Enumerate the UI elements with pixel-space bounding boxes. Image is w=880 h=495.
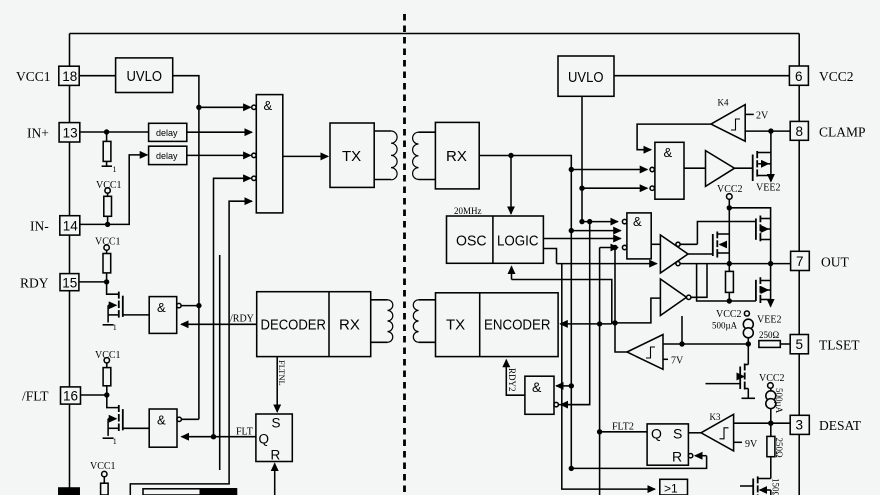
- wire bus B4: [219, 255, 221, 470]
- svg-text:TX: TX: [342, 148, 361, 165]
- wire G5 output to bus: [181, 305, 199, 307]
- svg-text:R: R: [271, 448, 281, 463]
- buffer B1 (clamp driver): [706, 151, 735, 187]
- wire top rail: [70, 33, 800, 35]
- wire bus 7V column: [615, 248, 627, 353]
- wire K3 output to FF2 S: [688, 432, 701, 434]
- svg-text:15: 15: [62, 275, 77, 290]
- transformer T2 secondary coil: [413, 300, 418, 342]
- wire UVLO2 to pin6: [614, 75, 789, 77]
- AND gate G4 (rdy2) box: [525, 376, 554, 414]
- svg-text:IN-: IN-: [30, 219, 49, 234]
- wire G3 in1: [582, 221, 618, 223]
- wire pin15 to node: [79, 281, 107, 283]
- svg-text:2V: 2V: [756, 111, 769, 122]
- node encoder line: [597, 321, 602, 326]
- wire VCC2 rail: [728, 199, 730, 263]
- pin 16 box: [61, 387, 81, 404]
- VCC1 terminal (IN- pullup): [105, 188, 110, 193]
- wire bus B-E down: [559, 222, 590, 405]
- svg-text:FLTNL: FLTNL: [277, 360, 287, 386]
- transformer T2 primary coil: [388, 300, 393, 342]
- current source I1: [743, 319, 753, 329]
- wire RX output: [479, 156, 571, 469]
- svg-text:500µA: 500µA: [774, 388, 784, 414]
- VCC2 terminal (TLSET source): [744, 311, 749, 316]
- wire buffer to clamp fet gate: [735, 167, 753, 169]
- K3 comparator: [701, 414, 734, 451]
- node IN+: [104, 129, 109, 134]
- wire cmp input up: [681, 316, 683, 344]
- node gate rail: [727, 298, 732, 303]
- svg-text:VCC2: VCC2: [717, 184, 743, 195]
- TX/ENCODER divider: [479, 293, 481, 357]
- wire UVLO2 output bus: [581, 96, 583, 221]
- svg-text:Q: Q: [651, 426, 662, 442]
- wire M6 gate to G6: [123, 427, 149, 429]
- svg-text:DECODER: DECODER: [261, 317, 327, 334]
- svg-text:9V: 9V: [745, 439, 758, 450]
- node cmp input: [679, 341, 684, 346]
- AND gate G3 (output logic) box: [627, 213, 651, 259]
- transistor M5 (RDY): [107, 282, 119, 294]
- TX ENCODER box: [436, 293, 559, 357]
- wire LOGIC out1 to gate in3: [543, 238, 620, 240]
- svg-text:7: 7: [796, 254, 804, 269]
- svg-text:FLT2: FLT2: [612, 422, 634, 433]
- resistor R-IN-: [107, 193, 109, 196]
- wire left VCC1 bus: [69, 34, 71, 495]
- transistor M3 (small pmos): [712, 234, 714, 256]
- wire DECODER /RDY to NAND: [181, 323, 257, 325]
- VCC2 terminal (DESAT source): [768, 383, 774, 389]
- svg-text:1: 1: [113, 323, 117, 332]
- wire IN- to delay2: [80, 155, 147, 225]
- svg-text:Q: Q: [259, 432, 270, 447]
- svg-text:18: 18: [62, 69, 77, 84]
- svg-text:RX: RX: [446, 148, 467, 165]
- AND gate G1 box: [256, 95, 283, 213]
- wire comparator plus input: [663, 343, 748, 345]
- UVLO U1 box: [116, 58, 173, 93]
- svg-text:250Ω: 250Ω: [774, 438, 784, 459]
- wire DECODER FLTNL down: [276, 357, 278, 412]
- pin 13 box: [59, 123, 80, 142]
- svg-text:&: &: [157, 300, 166, 315]
- svg-text:TX: TX: [446, 317, 465, 334]
- svg-text:7V: 7V: [671, 356, 684, 367]
- wire G2 output to buffer: [684, 167, 706, 169]
- svg-text:ENCODER: ENCODER: [484, 317, 551, 334]
- transistor M7 (TLSET): [747, 344, 749, 365]
- svg-text:K4: K4: [718, 98, 729, 108]
- wire FF2 R feedback: [571, 456, 706, 469]
- wire gate rail M2: [697, 222, 756, 245]
- svg-text:&: &: [157, 413, 166, 428]
- OSC/LOGIC divider: [492, 216, 494, 263]
- A2 output bubble: [687, 295, 691, 299]
- wire K4 input from CLAMP: [745, 130, 771, 132]
- node TLSET: [746, 341, 751, 346]
- VCC1 terminal (FLT pullup): [104, 358, 109, 363]
- node FLT/bus: [211, 434, 216, 439]
- pin 17 box (cut at bottom edge): [59, 488, 79, 495]
- node OUT a: [727, 261, 732, 266]
- transistor M6 (FLT): [107, 395, 118, 408]
- svg-text:R: R: [672, 449, 682, 465]
- wire UVLO2 to G2 in3: [582, 187, 647, 189]
- pin 7 box: [791, 251, 810, 270]
- wire 9V stub: [734, 441, 742, 443]
- wire LOGIC out2 to driver: [557, 263, 657, 265]
- A1 lower output bubble: [676, 262, 680, 266]
- AND input-1 bubble: [252, 105, 256, 109]
- transistor M4 (pull-down): [755, 280, 757, 301]
- svg-text:RDY2: RDY2: [507, 368, 517, 392]
- svg-text:VEE2: VEE2: [757, 315, 781, 326]
- resistor R-TLSET 250: [759, 341, 780, 348]
- svg-text:delay: delay: [156, 128, 178, 138]
- wire RX to LOGIC top: [510, 156, 512, 214]
- pin 15 box: [60, 274, 79, 291]
- svg-text:&: &: [633, 214, 642, 229]
- delay block D2: [149, 146, 187, 164]
- svg-text:3: 3: [796, 418, 804, 433]
- wire 2V stub: [745, 113, 754, 115]
- svg-text:13: 13: [63, 126, 78, 141]
- wire G3 output to A1: [651, 243, 660, 245]
- node bus590 start: [587, 219, 592, 224]
- svg-text:1: 1: [113, 165, 117, 174]
- node on RX bus: [569, 167, 574, 172]
- wire delay2 to AND in3: [187, 154, 251, 156]
- G6 output bubble: [177, 417, 181, 421]
- bottom cut box: [143, 489, 237, 495]
- transistor M1 (clamp): [752, 155, 754, 182]
- svg-text:&: &: [264, 98, 273, 113]
- svg-text:K3: K3: [710, 412, 721, 422]
- wire K4 output: [637, 124, 711, 150]
- svg-text:VCC2: VCC2: [819, 69, 854, 84]
- transformer T2 left stubs: [371, 299, 388, 301]
- svg-text:20MHz: 20MHz: [454, 206, 482, 216]
- driver triangle A1: [660, 235, 688, 273]
- svg-text:VCC2: VCC2: [759, 373, 785, 384]
- transformer T2 right stubs: [419, 299, 436, 301]
- pin 14 box: [60, 216, 80, 235]
- svg-text:/RDY: /RDY: [230, 314, 254, 325]
- svg-text:500µA: 500µA: [712, 321, 738, 331]
- pin 8 box: [790, 121, 808, 140]
- svg-text:VCC1: VCC1: [90, 461, 116, 472]
- NAND gate G5 (RDY) box: [149, 297, 177, 334]
- svg-text:DESAT: DESAT: [819, 418, 862, 433]
- svg-text:VCC2: VCC2: [716, 309, 742, 320]
- pin 18 box: [59, 66, 79, 85]
- wire A2 output: [691, 264, 707, 298]
- OR gate G7 box: [660, 479, 688, 495]
- wire FF1 Q output FLT: [182, 436, 256, 438]
- svg-text:/FLT: /FLT: [22, 389, 49, 404]
- svg-text:RX: RX: [339, 317, 360, 334]
- wire G6 output to bus: [181, 418, 199, 420]
- resistor R-FLT: [106, 363, 108, 368]
- G5 output bubble: [177, 303, 181, 307]
- NAND gate G6 (FLT) box: [149, 409, 177, 447]
- SR flip-flop FF2 box: [647, 424, 688, 465]
- transformer T1 secondary coil: [413, 132, 419, 179]
- svg-text:IN+: IN+: [27, 126, 49, 141]
- svg-text:150Ω: 150Ω: [771, 478, 781, 495]
- svg-text:6: 6: [795, 69, 803, 84]
- VCC1 terminal (RDY pullup): [104, 245, 109, 250]
- wire G4 output RDY2 up: [506, 360, 525, 395]
- svg-text:VCC1: VCC1: [95, 237, 121, 248]
- node UVLO/AND-in1: [196, 105, 201, 110]
- wire pin18 to UVLO: [79, 75, 115, 77]
- transistor M8 (DESAT): [752, 479, 754, 495]
- TX block (top channel): [330, 123, 374, 187]
- svg-text:CLAMP: CLAMP: [819, 125, 866, 140]
- AND input-4 bubble: [252, 176, 256, 180]
- resistor R-RDY: [106, 250, 108, 253]
- wire bus B3 to AND in5: [130, 201, 252, 495]
- node FLT pin: [104, 392, 109, 397]
- transformer T1 left stubs: [374, 130, 391, 132]
- ground 1 (IN+ pulldown): [106, 161, 108, 166]
- resistor R-out: [726, 271, 734, 292]
- wire FF1 R input: [274, 464, 276, 495]
- node OUT b: [768, 261, 773, 266]
- svg-text:1: 1: [113, 437, 117, 446]
- resistor R-IN+: [106, 132, 108, 141]
- wire bus B-A (to OR gate): [562, 264, 655, 490]
- wire M4 source to VEE2: [770, 300, 772, 307]
- K4 comparator: [711, 105, 745, 142]
- svg-text:14: 14: [63, 219, 79, 234]
- OSC LOGIC box: [447, 216, 544, 263]
- resistor R-bot: [103, 477, 105, 483]
- wire to A2 input: [615, 298, 660, 323]
- wire G4 in1 from RX bus: [556, 385, 571, 387]
- 7V comparator K2: [627, 335, 663, 370]
- wire pin16 to node: [81, 394, 107, 396]
- svg-text:VCC1: VCC1: [16, 69, 51, 84]
- driver triangle A2: [660, 279, 686, 316]
- wire bus FLT2 column: [599, 248, 601, 495]
- wire ENCODER feedback to LOGIC: [512, 280, 612, 324]
- wire bus RX to G2 in2: [571, 169, 647, 171]
- wire A1 tip output to M3 gate: [688, 253, 713, 255]
- svg-text:delay: delay: [156, 151, 178, 161]
- svg-text:FLT: FLT: [236, 427, 253, 438]
- wire M7 gate stub: [706, 383, 741, 385]
- wire OUT rail: [680, 263, 791, 265]
- svg-text:LOGIC: LOGIC: [497, 233, 539, 250]
- svg-text:&: &: [664, 145, 673, 160]
- node bus615/tri2: [612, 320, 617, 325]
- transformer T1 right stubs: [419, 131, 436, 133]
- node CLAMP: [768, 128, 773, 133]
- svg-text:UVLO: UVLO: [568, 69, 604, 86]
- node UVLO2/in3: [579, 186, 584, 191]
- AND input-3 bubble: [252, 153, 256, 157]
- AND gate G2 (clamp) box: [655, 142, 684, 199]
- svg-text:16: 16: [63, 389, 78, 404]
- wire AND output to TX: [283, 155, 328, 157]
- wire IN+ to delay1: [80, 131, 149, 133]
- svg-text:OSC: OSC: [456, 233, 487, 250]
- svg-text:S: S: [272, 416, 281, 431]
- wire UVLO output to bus: [173, 76, 199, 420]
- svg-text:250Ω: 250Ω: [759, 330, 780, 340]
- RX block (top channel): [435, 122, 479, 188]
- wire bus B2 to AND in4: [214, 178, 251, 436]
- DECODER RX box: [257, 292, 371, 357]
- wire to M2 drain: [729, 208, 770, 264]
- SR flip-flop FF1 box: [256, 414, 292, 462]
- svg-text:RDY: RDY: [20, 276, 49, 291]
- resistor R-DESAT 250: [770, 423, 772, 436]
- svg-text:>1: >1: [664, 482, 678, 495]
- svg-text:S: S: [673, 426, 682, 442]
- wire delay1 to AND in2: [187, 131, 252, 133]
- transistor M2 (pull-up): [755, 219, 757, 240]
- wire 7V stub: [663, 358, 668, 360]
- wire DESAT node to pin3: [771, 422, 790, 424]
- node RX/OSC: [508, 153, 513, 158]
- A1 upper output bubble: [676, 242, 680, 246]
- delay block D1: [149, 123, 187, 141]
- current source I2: [766, 391, 776, 401]
- svg-text:VCC1: VCC1: [96, 180, 122, 191]
- wire LOGIC bottom step output: [543, 249, 556, 264]
- svg-text:5: 5: [796, 337, 804, 352]
- node in4/bus615: [612, 245, 617, 250]
- DECODER/RX divider: [328, 292, 330, 357]
- node R feedback: [569, 466, 574, 471]
- VCC2 terminal (output stage): [727, 194, 733, 200]
- wire AND in1: [199, 106, 251, 108]
- wire CLAMP node to pin8: [771, 130, 790, 132]
- isolation barrier (dashed): [403, 14, 406, 495]
- wire FLT2 into FF2: [600, 431, 648, 433]
- wire G3 in4: [600, 247, 618, 249]
- svg-text:&: &: [532, 379, 542, 395]
- node IN-: [105, 222, 110, 227]
- svg-text:OUT: OUT: [821, 255, 849, 270]
- svg-text:VCC1: VCC1: [95, 350, 121, 361]
- wire A1 upper output: [680, 243, 697, 245]
- pin 5 box: [790, 335, 808, 354]
- pin 3 box: [790, 415, 809, 434]
- svg-text:8: 8: [796, 124, 804, 139]
- node G5 out: [196, 303, 201, 308]
- pin 6 box: [789, 66, 808, 85]
- VCC1 terminal (bottom): [102, 471, 107, 476]
- wire G4 in2: [561, 404, 590, 406]
- svg-text:UVLO: UVLO: [127, 68, 163, 85]
- wire DESAT node to K3: [734, 422, 771, 424]
- wire down to low gate rail: [697, 264, 756, 301]
- transformer T1 primary coil: [391, 131, 397, 180]
- node RDY: [104, 279, 109, 284]
- wire M5 gate to G5: [123, 314, 149, 316]
- wire clamp fet source to VEE2: [770, 176, 772, 182]
- FF2 R bubble: [688, 454, 692, 458]
- UVLO U2 box: [558, 56, 614, 96]
- wire to ENCODER input: [560, 323, 612, 325]
- node UVLO2 bus end: [579, 219, 584, 224]
- wire right VCC2 bus: [798, 34, 800, 495]
- svg-text:VEE2: VEE2: [756, 183, 780, 194]
- svg-text:TLSET: TLSET: [819, 338, 860, 353]
- node DESAT: [768, 421, 773, 426]
- node FLT2: [597, 429, 602, 434]
- wire G3 in2: [571, 230, 620, 232]
